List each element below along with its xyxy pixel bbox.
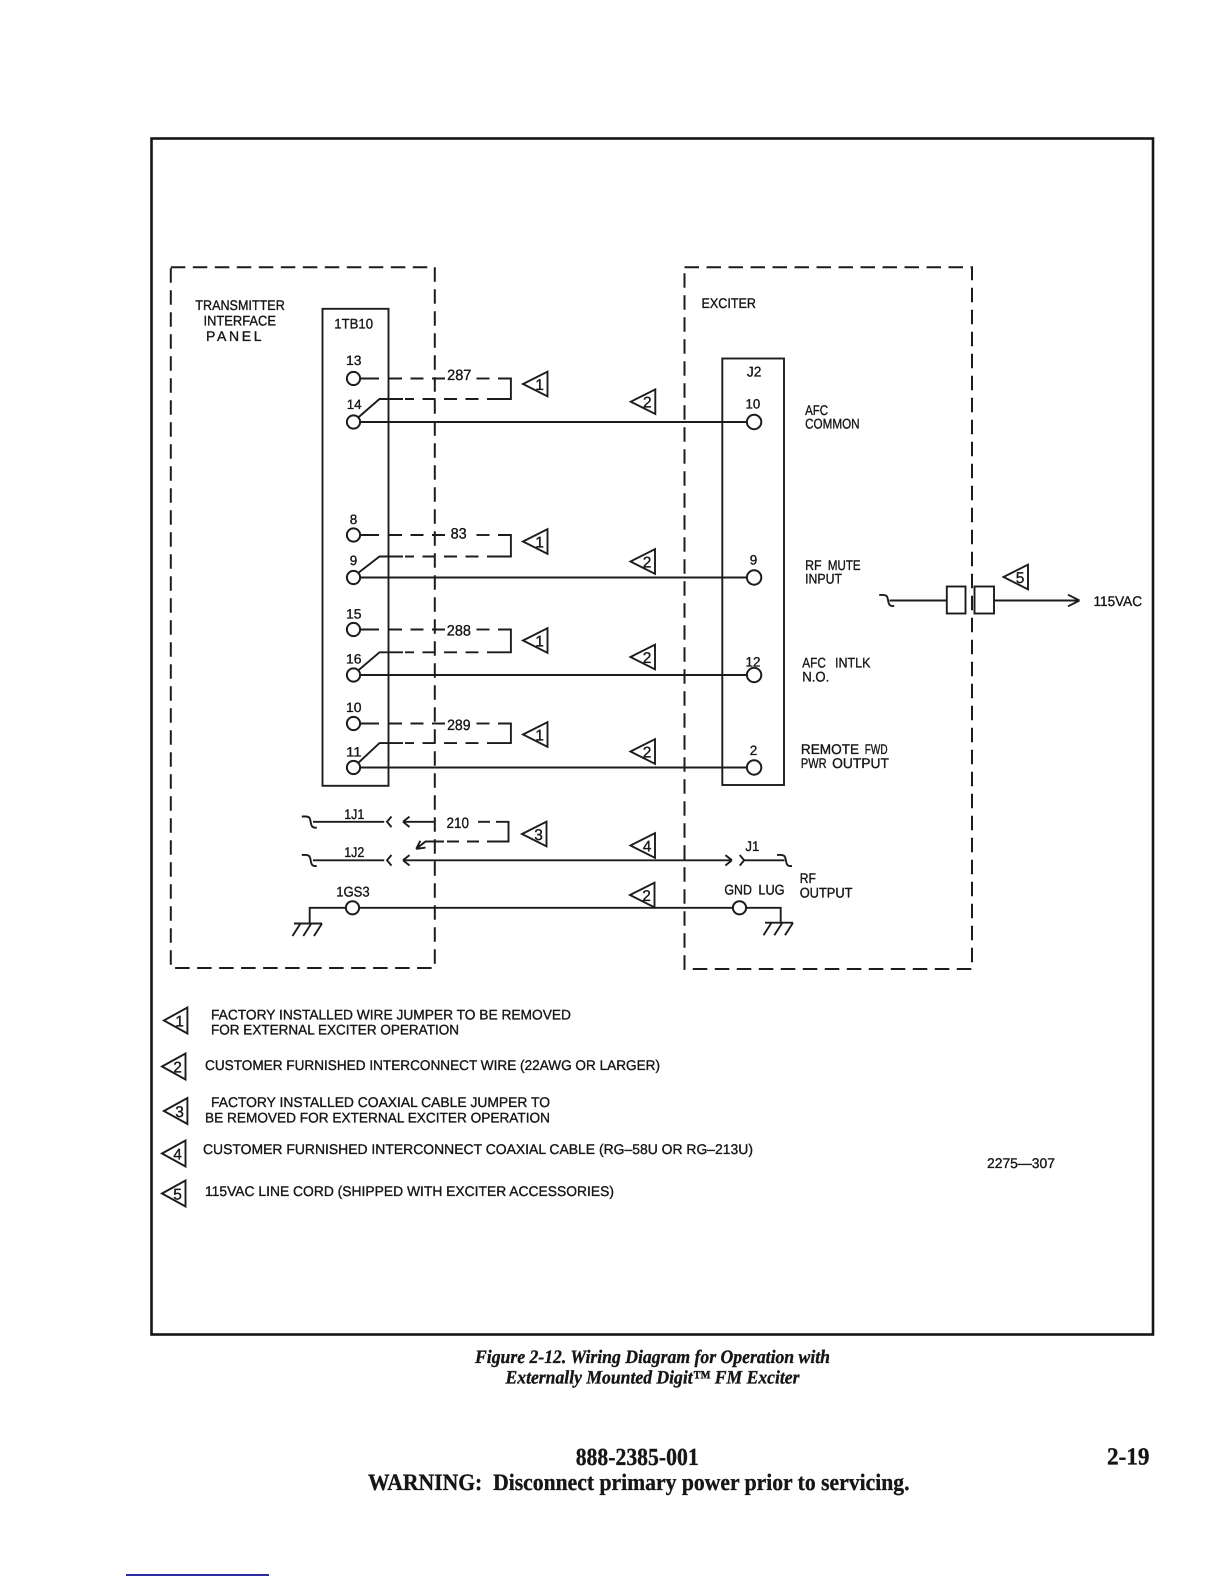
svg-text:PWR: PWR: [801, 755, 827, 771]
wire jumper 287 (pin13 to pin14): [359, 367, 511, 417]
svg-text:FOR EXTERNAL EXCITER OPERATION: FOR EXTERNAL EXCITER OPERATION: [211, 1022, 459, 1038]
svg-text:2: 2: [643, 554, 652, 571]
pin J2-10: [746, 396, 762, 429]
svg-text:2-19: 2-19: [1107, 1444, 1150, 1471]
coax cable 1J2 to J1 double arrow: [403, 855, 732, 865]
connector 1J1 squiggle: [302, 817, 317, 828]
connector J1 line: [744, 859, 784, 861]
wire 1TB10-16 to J2-12: [361, 674, 747, 676]
svg-text:289: 289: [447, 717, 471, 734]
flag 1 (row 2): [523, 529, 548, 554]
note flag 3: [164, 1098, 188, 1124]
wire 115VAC arrow: [994, 595, 1080, 607]
flag 5 (115VAC): [1004, 565, 1029, 590]
svg-text:OUTPUT: OUTPUT: [832, 755, 889, 771]
svg-text:OUTPUT: OUTPUT: [800, 884, 853, 900]
note flag 1: [164, 1008, 188, 1034]
exciter dashed box: [685, 267, 973, 969]
flag 1 (row 4): [523, 722, 548, 747]
svg-text:BE REMOVED FOR EXTERNAL EXCITE: BE REMOVED FOR EXTERNAL EXCITER OPERATIO…: [205, 1110, 550, 1126]
label RF MUTE INPUT: [805, 557, 861, 586]
pin 1TB10-10: [346, 700, 362, 730]
wire 1TB10-9 to J2-9: [361, 577, 747, 579]
label AFC COMMON: [805, 402, 860, 432]
flag 1 (row 3): [523, 628, 548, 653]
svg-text:FACTORY INSTALLED COAXIAL CABL: FACTORY INSTALLED COAXIAL CABLE JUMPER T…: [211, 1094, 550, 1110]
svg-text:1J2: 1J2: [344, 844, 364, 860]
wire GND LUG to ground: [747, 908, 781, 923]
ground (exciter side): [764, 923, 794, 936]
flag 4: [631, 833, 656, 858]
pin 1TB10-11: [346, 745, 362, 775]
svg-text:TRANSMITTER: TRANSMITTER: [195, 297, 284, 313]
connector 1J1 line: [313, 821, 384, 823]
svg-text:EXCITER: EXCITER: [702, 295, 757, 311]
svg-text:115VAC LINE CORD (SHIPPED WITH: 115VAC LINE CORD (SHIPPED WITH EXCITER A…: [205, 1183, 614, 1199]
svg-text:N.O.: N.O.: [802, 669, 829, 685]
svg-text:4: 4: [643, 838, 652, 855]
svg-text:15: 15: [346, 607, 362, 622]
svg-text:210: 210: [447, 815, 470, 832]
svg-text:2: 2: [643, 395, 652, 412]
svg-text:288: 288: [447, 623, 471, 640]
label TRANSMITTER INTERFACE PANEL: [195, 297, 284, 344]
figure frame: [152, 139, 1154, 1335]
wire 1GS3 to ground: [310, 908, 346, 924]
svg-text:2275—307: 2275—307: [987, 1155, 1055, 1171]
note flag 2: [162, 1054, 186, 1080]
connector 1J2 line: [313, 859, 384, 861]
svg-text:5: 5: [1016, 570, 1025, 587]
svg-text:8: 8: [350, 512, 358, 527]
svg-text:5: 5: [173, 1187, 182, 1204]
ground switch 1GS3: [336, 884, 370, 915]
terminal block 1TB10: [323, 309, 389, 786]
wire 1GS3 to GND LUG: [360, 907, 733, 909]
svg-text:WARNING: Disconnect primary p: WARNING: Disconnect primary power prior …: [368, 1470, 910, 1496]
wire jumper 83 (pin8 to pin9): [359, 525, 511, 572]
svg-text:1TB10: 1TB10: [334, 315, 373, 331]
svg-text:11: 11: [346, 745, 362, 760]
svg-text:3: 3: [534, 827, 543, 844]
svg-text:J2: J2: [747, 363, 762, 379]
svg-text:Figure 2-12. Wiring Diagram fo: Figure 2-12. Wiring Diagram for Operatio…: [474, 1347, 830, 1368]
note flag 5: [162, 1181, 186, 1207]
svg-text:1: 1: [535, 534, 544, 551]
svg-text:1: 1: [175, 1014, 184, 1031]
svg-text:9: 9: [750, 553, 758, 568]
svg-text:115VAC: 115VAC: [1094, 593, 1143, 609]
connector J1 contact: [740, 855, 745, 866]
svg-text:Externally Mounted Digit™ FM E: Externally Mounted Digit™ FM Exciter: [505, 1368, 800, 1389]
connector 1J2 squiggle: [302, 855, 317, 866]
pin J2-9: [747, 553, 761, 585]
GND LUG terminal: [724, 882, 784, 915]
connector 1J1 contact: [387, 817, 392, 828]
svg-text:10: 10: [746, 396, 761, 411]
flag 3: [522, 822, 547, 847]
wire 1TB10-11 to J2-2: [361, 767, 747, 769]
svg-text:2: 2: [173, 1060, 182, 1077]
wire jumper 288 (pin15 to pin16): [359, 623, 511, 671]
115VAC line cord squiggle: [879, 595, 894, 606]
jumper 210 arrow to 1J1: [403, 817, 434, 827]
connector J1 squiggle: [777, 855, 792, 866]
svg-text:9: 9: [350, 553, 358, 568]
svg-text:1: 1: [535, 727, 544, 744]
pin 1TB10-14: [347, 397, 362, 429]
flag 2 (row 4): [631, 739, 656, 764]
svg-text:12: 12: [746, 654, 761, 669]
flag 2 (row 3): [631, 645, 656, 670]
wire 1TB10-14 to J2-10: [361, 421, 747, 423]
svg-text:1GS3: 1GS3: [336, 884, 370, 900]
svg-text:COMMON: COMMON: [805, 416, 860, 432]
connector J2: [722, 359, 784, 786]
label REMOTE FWD PWR OUTPUT: [801, 741, 890, 771]
svg-text:J1: J1: [745, 838, 759, 854]
pin J2-2: [747, 743, 761, 775]
svg-text:16: 16: [346, 652, 362, 667]
connector 1J2 contact: [387, 855, 392, 866]
wire jumper 289 (pin10 to pin11): [359, 717, 511, 763]
svg-text:GND: GND: [724, 882, 752, 898]
svg-text:888-2385-001: 888-2385-001: [576, 1444, 699, 1471]
svg-text:CUSTOMER FURNISHED INTERCONNEC: CUSTOMER FURNISHED INTERCONNECT COAXIAL …: [203, 1141, 753, 1157]
svg-text:2: 2: [643, 744, 652, 761]
svg-text:83: 83: [451, 525, 467, 542]
svg-text:INTLK: INTLK: [835, 655, 871, 671]
transmitter interface panel dashed box: [171, 267, 435, 968]
svg-text:1: 1: [535, 377, 544, 394]
svg-text:14: 14: [347, 397, 362, 412]
label AFC INTLK N.O.: [802, 655, 871, 685]
svg-text:1: 1: [535, 633, 544, 650]
svg-text:1J1: 1J1: [344, 806, 364, 822]
figure caption: [474, 1347, 830, 1389]
note 3 text: [205, 1094, 550, 1126]
pin 1TB10-9: [347, 553, 360, 584]
pin 1TB10-13: [346, 353, 362, 385]
plug body half 1: [947, 587, 966, 614]
flag 1 (row 1): [523, 372, 548, 397]
flag 2 (row 2): [631, 549, 656, 574]
svg-text:287: 287: [447, 367, 471, 384]
svg-text:INPUT: INPUT: [805, 570, 842, 586]
jumper 210 dashed cable: [416, 815, 508, 849]
svg-text:INTERFACE: INTERFACE: [204, 312, 277, 328]
pin 1TB10-15: [346, 607, 362, 637]
blue underline mark: [126, 1574, 269, 1577]
svg-text:2: 2: [750, 743, 758, 758]
svg-text:3: 3: [175, 1104, 184, 1121]
svg-text:2: 2: [643, 650, 652, 667]
note flag 4: [162, 1141, 186, 1167]
flag 2 (ground wire): [630, 883, 655, 908]
svg-text:FACTORY INSTALLED WIRE JUMPER: FACTORY INSTALLED WIRE JUMPER TO BE REMO…: [211, 1007, 571, 1023]
svg-text:10: 10: [346, 700, 362, 715]
svg-text:PANEL: PANEL: [206, 328, 262, 344]
pin 1TB10-8: [347, 512, 360, 542]
svg-text:4: 4: [173, 1147, 182, 1164]
pin J2-12: [746, 654, 762, 682]
pin 1TB10-16: [346, 652, 362, 682]
svg-text:CUSTOMER FURNISHED INTERCONNEC: CUSTOMER FURNISHED INTERCONNECT WIRE (22…: [205, 1057, 660, 1073]
plug body half 2: [975, 587, 995, 614]
ground (transmitter side): [293, 924, 323, 937]
wire to plug: [890, 600, 947, 602]
note 1 text: [211, 1007, 571, 1038]
svg-text:LUG: LUG: [758, 882, 784, 898]
svg-text:2: 2: [642, 888, 651, 905]
label RF OUTPUT: [800, 870, 853, 900]
svg-text:13: 13: [346, 353, 362, 368]
flag 2 (row 1): [631, 389, 656, 414]
